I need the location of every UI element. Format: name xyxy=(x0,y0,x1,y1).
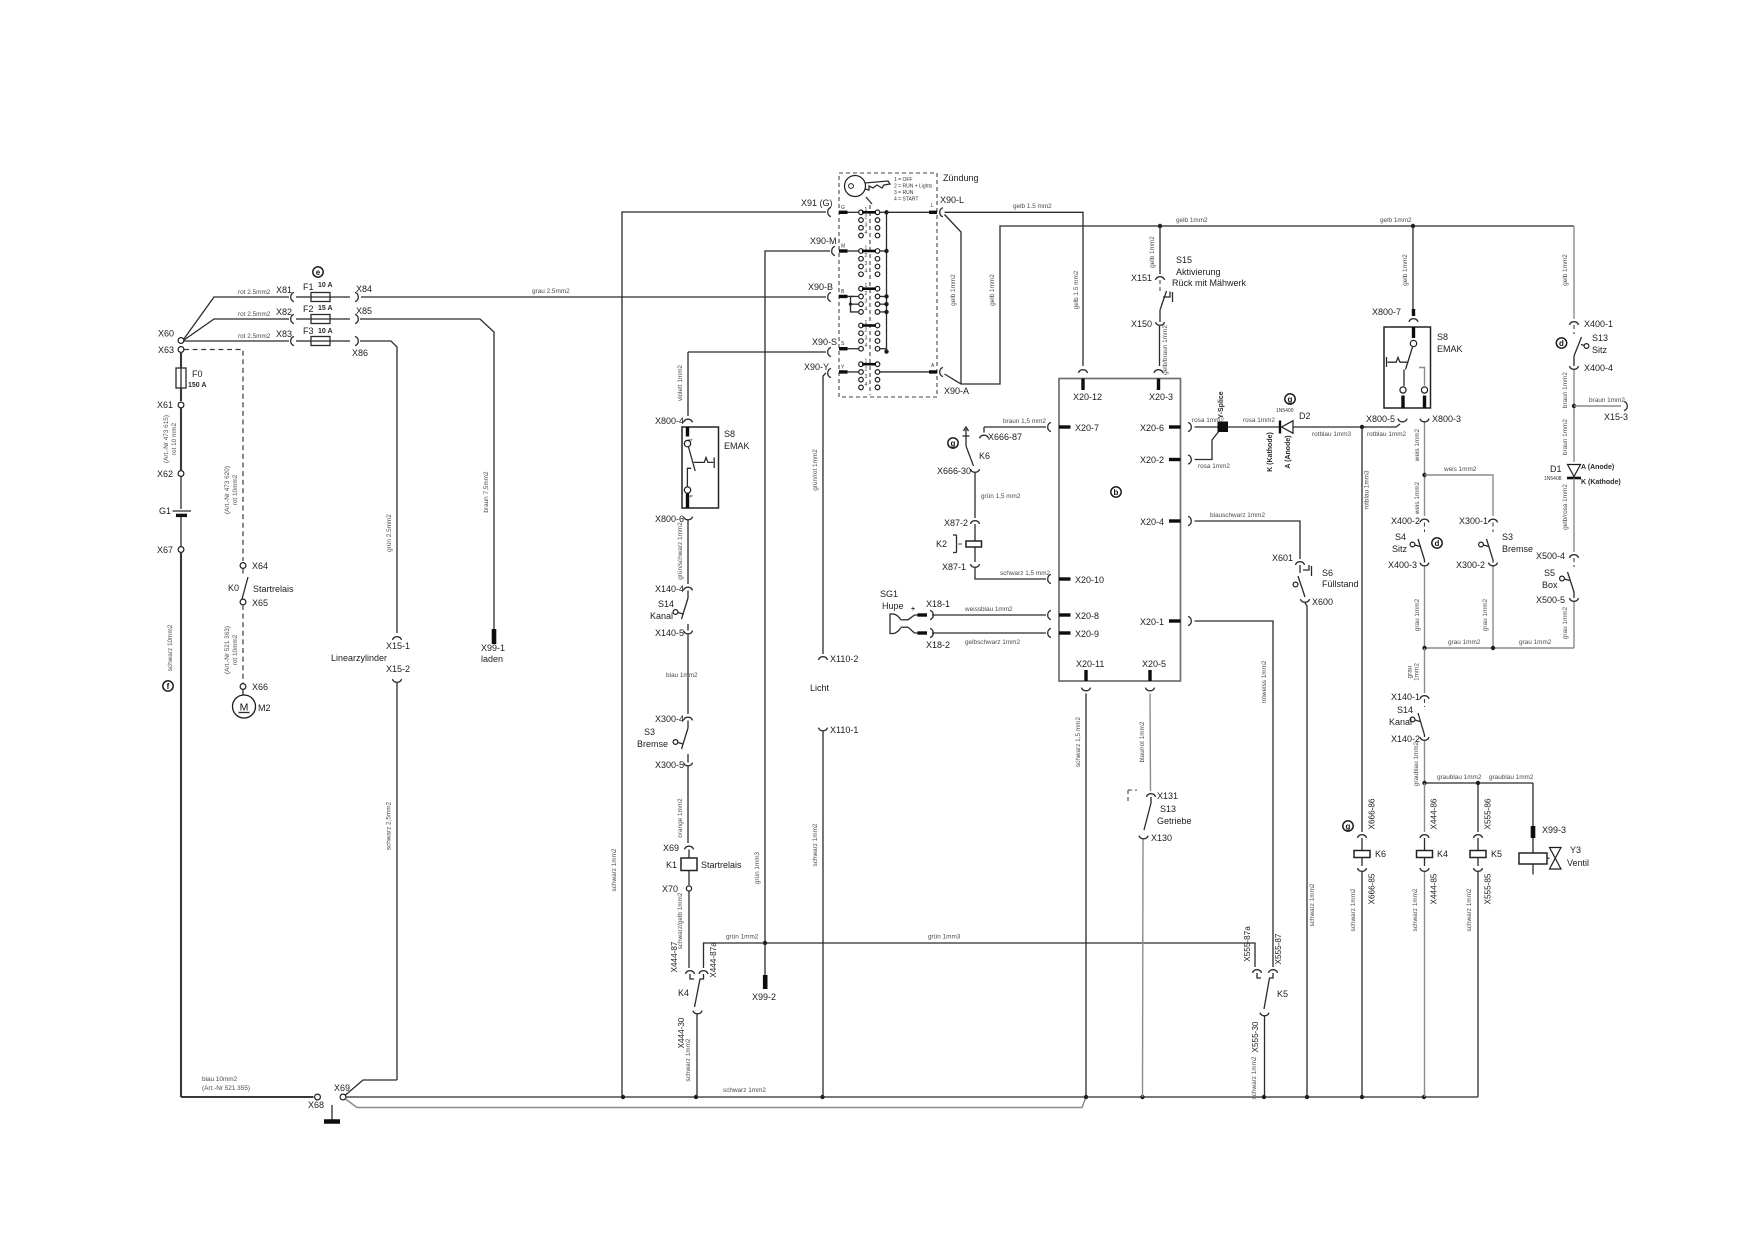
connector X90-Y xyxy=(828,368,831,377)
ignition terminal M xyxy=(839,249,848,252)
svg-text:X800-7: X800-7 xyxy=(1372,307,1401,317)
svg-text:schwarz 1,5 mm2: schwarz 1,5 mm2 xyxy=(1075,717,1082,768)
node X65 xyxy=(240,599,246,605)
wire X800-3 down, weis 1mm2 xyxy=(1424,423,1426,517)
svg-text:4: 4 xyxy=(865,230,868,236)
svg-text:X20-6: X20-6 xyxy=(1140,423,1164,433)
svg-text:F3: F3 xyxy=(303,326,314,336)
connector X444-30 xyxy=(693,1011,702,1014)
svg-text:X444-86: X444-86 xyxy=(1430,798,1439,829)
svg-text:rosa 1mm2: rosa 1mm2 xyxy=(1243,417,1275,424)
circled letter g (K6 coil) xyxy=(1343,821,1353,831)
splice Y-Splice xyxy=(1218,422,1229,433)
svg-text:X90-Y: X90-Y xyxy=(804,362,829,372)
svg-text:X555-86: X555-86 xyxy=(1484,798,1493,829)
relay coil K5 xyxy=(1477,838,1479,851)
svg-text:grau 2.5mm2: grau 2.5mm2 xyxy=(532,288,570,295)
terminal X99-3 xyxy=(1531,826,1536,838)
svg-text:rot 10mm2: rot 10mm2 xyxy=(232,474,239,505)
pin X20-4 xyxy=(1188,516,1191,525)
svg-text:X85: X85 xyxy=(356,306,372,316)
svg-text:schwarz 1mm2: schwarz 1mm2 xyxy=(1309,883,1316,926)
svg-text:X67: X67 xyxy=(157,545,173,555)
svg-text:X555-85: X555-85 xyxy=(1484,873,1493,904)
connector X666-30 xyxy=(970,469,979,472)
svg-text:EMAK: EMAK xyxy=(724,441,750,451)
svg-text:150 A: 150 A xyxy=(188,382,206,389)
svg-text:X20-9: X20-9 xyxy=(1075,629,1099,639)
svg-text:gelb 1.5 mm2: gelb 1.5 mm2 xyxy=(1013,203,1052,210)
svg-text:violett 1mm2: violett 1mm2 xyxy=(677,364,684,401)
pin X20-7 xyxy=(1048,422,1051,431)
fuse F1 10A xyxy=(296,296,311,298)
svg-text:1 = OFF: 1 = OFF xyxy=(894,177,912,183)
svg-text:X140-4: X140-4 xyxy=(655,584,684,594)
svg-text:gelb 1mm2: gelb 1mm2 xyxy=(989,274,996,306)
svg-text:grau 1mm2: grau 1mm2 xyxy=(1482,598,1489,631)
svg-text:X83: X83 xyxy=(276,329,292,339)
connector X300-1 xyxy=(1488,519,1497,522)
connector X90-B xyxy=(828,292,831,301)
svg-text:gelb 1.5 mm2: gelb 1.5 mm2 xyxy=(1073,270,1080,309)
circled letter b xyxy=(1111,487,1121,497)
svg-text:A (Anode): A (Anode) xyxy=(1581,464,1614,471)
connector X800-3 xyxy=(1420,419,1429,422)
node X66 xyxy=(240,684,246,690)
connector X18-1 xyxy=(930,610,933,619)
svg-text:X86: X86 xyxy=(352,348,368,358)
svg-text:+: + xyxy=(911,606,915,613)
connector X444-87 xyxy=(685,971,694,974)
valve coil Y3 Ventil xyxy=(1532,838,1534,853)
switch S8 EMAK (left) xyxy=(682,427,719,508)
wire X90-L rail gelb 1.5mm2 xyxy=(945,212,1084,366)
svg-text:3: 3 xyxy=(865,261,868,267)
svg-text:1N5400: 1N5400 xyxy=(1276,408,1294,414)
svg-text:gelb 1mm2: gelb 1mm2 xyxy=(1402,254,1409,286)
wire battery minus rail to X68 xyxy=(181,1096,314,1098)
connector X84 xyxy=(355,292,358,301)
svg-text:X110-1: X110-1 xyxy=(830,725,858,735)
svg-text:gelb/rosa 1mm2: gelb/rosa 1mm2 xyxy=(1562,484,1569,530)
wire SG1 to X18-2 xyxy=(908,627,915,633)
svg-text:X20-4: X20-4 xyxy=(1140,517,1164,527)
circled letter d (S4) xyxy=(1432,538,1442,548)
svg-text:X300-4: X300-4 xyxy=(655,714,684,724)
connector X800-4 xyxy=(683,419,692,422)
wire D2 junction down to K6 coil, rotblau 1mm2 xyxy=(1361,427,1363,832)
node X61 xyxy=(178,402,184,408)
control unit box b xyxy=(1059,379,1181,682)
svg-text:X666-30: X666-30 xyxy=(937,466,971,476)
svg-text:X90-L: X90-L xyxy=(940,195,964,205)
node X64 xyxy=(240,563,246,569)
svg-text:schwarz 10mm2: schwarz 10mm2 xyxy=(167,624,174,671)
svg-text:grau 1mm2: grau 1mm2 xyxy=(1519,639,1552,646)
wire branch to X15-3, braun 1mm2 xyxy=(1574,405,1621,407)
wire X600 to ground rail, schwarz 1mm2 xyxy=(1305,603,1307,1097)
ignition terminal G xyxy=(839,211,848,214)
svg-text:X555-30: X555-30 xyxy=(1251,1021,1260,1052)
wire X18-1 to X20-8, weissblau 1mm2 xyxy=(932,614,1046,616)
svg-text:graublau 1mm2: graublau 1mm2 xyxy=(1437,774,1482,781)
svg-text:gelb 1mm2: gelb 1mm2 xyxy=(1149,236,1156,268)
svg-text:S13: S13 xyxy=(1592,333,1608,343)
svg-text:X300-1: X300-1 xyxy=(1459,516,1488,526)
circled letter e xyxy=(313,267,323,277)
wire X15-2 down to X69, schwarz 2.5mm2 xyxy=(396,683,398,1080)
svg-text:X61: X61 xyxy=(157,400,173,410)
svg-text:X500-5: X500-5 xyxy=(1536,595,1565,605)
wire X20-1 to X555-87, rotweiss 1mm2 xyxy=(1195,621,1274,967)
svg-text:X600: X600 xyxy=(1312,597,1333,607)
connector X90-A xyxy=(940,367,943,376)
relay coil K2 xyxy=(974,524,976,541)
svg-text:K1: K1 xyxy=(666,860,677,870)
svg-text:K2: K2 xyxy=(936,539,947,549)
svg-text:4: 4 xyxy=(689,438,695,441)
svg-text:Y-Splice: Y-Splice xyxy=(1218,391,1225,418)
svg-text:Füllstand: Füllstand xyxy=(1322,579,1359,589)
wire X61 to X62, rot 10mm2 xyxy=(180,408,182,470)
ignition contact group Y xyxy=(859,362,864,367)
svg-text:rot 2.5mm2: rot 2.5mm2 xyxy=(238,333,271,340)
svg-text:Linearzylinder: Linearzylinder xyxy=(331,653,387,663)
svg-text:Sitz: Sitz xyxy=(1592,345,1608,355)
connector X90-S xyxy=(828,347,831,356)
svg-text:X15-2: X15-2 xyxy=(386,664,410,674)
relay coil K6 xyxy=(1361,838,1363,851)
switch S13 Sitz xyxy=(1573,325,1575,334)
svg-text:X63: X63 xyxy=(158,345,174,355)
svg-text:K6: K6 xyxy=(979,451,990,461)
connector X90-M xyxy=(832,246,835,255)
wire X20-5 to X131, blau/rot 1mm2 xyxy=(1149,694,1152,792)
svg-text:blau 10mm2: blau 10mm2 xyxy=(202,1076,238,1083)
svg-text:X150: X150 xyxy=(1131,319,1152,329)
wire X70 to X444-87, schwarz/gelb 1mm2 xyxy=(688,891,690,968)
svg-text:rotblau 1mm2: rotblau 1mm2 xyxy=(1367,431,1407,438)
node X68 xyxy=(315,1094,321,1100)
svg-text:X81: X81 xyxy=(276,285,292,295)
circled letter d (S13) xyxy=(1556,338,1566,348)
svg-text:F1: F1 xyxy=(303,282,314,292)
node X63 xyxy=(178,347,184,353)
wire X130 to ground rail xyxy=(1142,840,1145,1098)
svg-text:X15-1: X15-1 xyxy=(386,641,410,651)
pin X20-5 xyxy=(1145,688,1154,691)
wire to X140-1, grau 1mm2 xyxy=(1424,648,1426,693)
wire X110-1 to ground rail, schwarz 1mm2 xyxy=(822,732,824,1098)
connector X555-85 xyxy=(1473,868,1482,871)
svg-text:SG1: SG1 xyxy=(880,589,898,599)
svg-text:X84: X84 xyxy=(356,284,372,294)
wire rail corner down to X400-1, gelb 1mm2 xyxy=(1573,226,1575,319)
wire X400-3 down, grau 1mm2 xyxy=(1424,567,1426,649)
svg-text:Zündung: Zündung xyxy=(943,173,979,183)
svg-text:X69: X69 xyxy=(334,1083,350,1093)
ignition terminal A xyxy=(880,371,929,373)
svg-text:Y3: Y3 xyxy=(1570,845,1581,855)
terminal X99-1 laden xyxy=(492,629,497,644)
svg-text:X20-8: X20-8 xyxy=(1075,611,1099,621)
svg-text:D1: D1 xyxy=(1550,464,1562,474)
svg-text:1N5408: 1N5408 xyxy=(1544,476,1562,482)
svg-text:Bremse: Bremse xyxy=(637,739,668,749)
svg-text:g: g xyxy=(1346,822,1351,831)
svg-text:X131: X131 xyxy=(1157,791,1178,801)
svg-text:6: 6 xyxy=(689,494,695,497)
ignition contact group M xyxy=(859,249,864,254)
svg-text:2: 2 xyxy=(865,291,868,297)
svg-text:weis 1mm2: weis 1mm2 xyxy=(1414,481,1421,515)
wire X20-6 to Y-splice, rosa 1mm2 xyxy=(1195,426,1219,428)
svg-text:F0: F0 xyxy=(192,369,203,379)
connector X300-4 xyxy=(683,717,692,720)
connector X110-1 xyxy=(818,728,827,731)
wire X90-S to violett column x688 xyxy=(688,351,826,353)
motor M2 xyxy=(242,690,244,696)
svg-text:grau: grau xyxy=(1407,665,1414,678)
svg-text:Startrelais: Startrelais xyxy=(701,860,742,870)
svg-text:X110-2: X110-2 xyxy=(830,654,858,664)
svg-text:rot 2.5mm2: rot 2.5mm2 xyxy=(238,289,271,296)
relay coil K1 Startrelais xyxy=(688,850,690,859)
ignition terminal B xyxy=(839,295,848,298)
svg-text:blau/rot 1mm2: blau/rot 1mm2 xyxy=(1139,721,1146,762)
svg-text:X99-1: X99-1 xyxy=(481,643,505,653)
svg-text:X666-87: X666-87 xyxy=(988,432,1022,442)
svg-text:Sitz: Sitz xyxy=(1392,544,1408,554)
svg-text:X140-1: X140-1 xyxy=(1391,692,1420,702)
switch S3 Bremse xyxy=(1492,523,1494,533)
connector X666-87 xyxy=(979,435,988,438)
svg-text:K (Kathode): K (Kathode) xyxy=(1581,479,1621,486)
switch S8 EMAK (right) xyxy=(1384,327,1431,408)
svg-text:S15: S15 xyxy=(1176,255,1192,265)
svg-text:X300-2: X300-2 xyxy=(1456,560,1485,570)
svg-text:S13: S13 xyxy=(1160,804,1176,814)
svg-text:X18-1: X18-1 xyxy=(926,599,950,609)
svg-text:d: d xyxy=(1435,539,1440,548)
connector X400-2 xyxy=(1420,519,1429,522)
svg-text:X400-4: X400-4 xyxy=(1584,363,1613,373)
svg-text:X99-2: X99-2 xyxy=(752,992,776,1002)
svg-text:grau 1mm2: grau 1mm2 xyxy=(1448,639,1481,646)
svg-text:S6: S6 xyxy=(1322,568,1333,578)
svg-text:S3: S3 xyxy=(644,727,655,737)
svg-text:g: g xyxy=(1288,395,1293,404)
wire X500-5 to grau rail, grau 1mm2 xyxy=(1573,602,1575,648)
svg-text:rosa 1mm2: rosa 1mm2 xyxy=(1198,463,1230,470)
svg-text:2: 2 xyxy=(865,253,868,259)
svg-text:2: 2 xyxy=(865,215,868,221)
svg-text:Getriebe: Getriebe xyxy=(1157,816,1192,826)
wire X90-Y to Licht column x823 xyxy=(823,373,826,654)
svg-text:L: L xyxy=(931,203,934,209)
pin X20-10 xyxy=(1048,574,1051,583)
svg-text:EMAK: EMAK xyxy=(1437,344,1463,354)
svg-text:K5: K5 xyxy=(1277,989,1288,999)
wire graublau corner to X99-3 xyxy=(1532,783,1534,826)
svg-text:schwarz 1mm2: schwarz 1mm2 xyxy=(611,848,618,891)
svg-text:S3: S3 xyxy=(1502,532,1513,542)
connector X15-3 xyxy=(1624,401,1627,410)
svg-text:weissblau 1mm2: weissblau 1mm2 xyxy=(964,606,1013,613)
svg-text:3: 3 xyxy=(865,299,868,305)
svg-text:Box: Box xyxy=(1542,580,1558,590)
svg-text:X87-1: X87-1 xyxy=(942,562,966,572)
svg-text:Kanal: Kanal xyxy=(1389,717,1412,727)
wire X666-30 to X87-2, gruen 1.5mm2 xyxy=(974,473,976,518)
connector X131 xyxy=(1146,794,1155,797)
wire graublau junction down to K5 coil xyxy=(1477,783,1479,832)
svg-text:braun 1,5 mm2: braun 1,5 mm2 xyxy=(1003,418,1046,425)
connector X140-2 xyxy=(1420,737,1429,740)
svg-text:schwarz 1,5 mm2: schwarz 1,5 mm2 xyxy=(1000,570,1051,577)
svg-text:X20-12: X20-12 xyxy=(1073,392,1102,402)
wire graublau rail y=783 xyxy=(1425,782,1534,784)
ground symbol xyxy=(331,1105,333,1120)
svg-text:3: 3 xyxy=(865,222,868,228)
svg-text:X400-2: X400-2 xyxy=(1391,516,1420,526)
svg-text:4 = START: 4 = START xyxy=(894,197,918,203)
connector X81 xyxy=(291,292,294,301)
svg-text:blauschwarz 1mm2: blauschwarz 1mm2 xyxy=(1210,512,1265,519)
wire X300-5 to X69, orange 1mm2 xyxy=(687,767,689,844)
wire X63 dashed to X64 xyxy=(184,350,243,562)
svg-text:X90-S: X90-S xyxy=(812,337,837,347)
svg-text:X20-5: X20-5 xyxy=(1142,659,1166,669)
svg-text:2: 2 xyxy=(865,328,868,334)
svg-text:schwarz 2,5mm2: schwarz 2,5mm2 xyxy=(386,801,393,850)
svg-text:rotweiss 1mm2: rotweiss 1mm2 xyxy=(1261,660,1268,703)
wire branch to X300-1, weis 1mm2 xyxy=(1425,475,1494,516)
svg-text:schwarz 1mm2: schwarz 1mm2 xyxy=(723,1087,766,1094)
ignition contact group S xyxy=(859,323,864,328)
connector X86 xyxy=(355,336,358,345)
svg-text:(Art.-Nr 473 620): (Art.-Nr 473 620) xyxy=(224,466,231,514)
switch S4 Sitz xyxy=(1424,523,1426,533)
svg-text:rotblau 1mm3: rotblau 1mm3 xyxy=(1312,431,1352,438)
svg-text:X65: X65 xyxy=(252,598,268,608)
svg-text:rot 2.5mm2: rot 2.5mm2 xyxy=(238,311,271,318)
wire X60 to X81 xyxy=(184,297,289,339)
svg-text:1mm2: 1mm2 xyxy=(1414,663,1421,681)
svg-text:S4: S4 xyxy=(1395,532,1406,542)
svg-text:(Art.-Nr 521 355): (Art.-Nr 521 355) xyxy=(202,1085,250,1092)
svg-text:K5: K5 xyxy=(1491,849,1502,859)
svg-text:X151: X151 xyxy=(1131,273,1152,283)
svg-text:grau 1mm2: grau 1mm2 xyxy=(1562,606,1569,639)
wire X90-L branch down to X90-A joint xyxy=(945,215,962,385)
wire X666-87 to X20-7, braun 1.5mm2 xyxy=(984,426,1046,428)
wire grau rail y=648 xyxy=(1425,647,1575,649)
wire X555-30 to ground rail, schwarz 1mm2 xyxy=(1264,1017,1266,1098)
svg-text:laden: laden xyxy=(481,654,503,664)
svg-text:X60: X60 xyxy=(158,329,174,339)
svg-text:K0: K0 xyxy=(228,583,239,593)
svg-text:S8: S8 xyxy=(724,429,735,439)
svg-text:schwarz 1mm2: schwarz 1mm2 xyxy=(685,1038,692,1081)
connector X140-4 xyxy=(683,587,692,590)
svg-text:X82: X82 xyxy=(276,307,292,317)
svg-text:Kanal: Kanal xyxy=(650,611,673,621)
svg-text:S14: S14 xyxy=(1397,705,1413,715)
pin X20-1 xyxy=(1188,616,1191,625)
wire X60 to X83 xyxy=(184,340,289,342)
svg-text:4: 4 xyxy=(865,306,868,312)
svg-text:e: e xyxy=(316,268,321,277)
fuse F2 15A xyxy=(296,318,311,320)
ignition switch S dashed box xyxy=(839,173,937,397)
svg-text:blau 1mm2: blau 1mm2 xyxy=(666,672,698,679)
svg-text:schwarz 1mm2: schwarz 1mm2 xyxy=(812,823,819,866)
svg-text:X300-5: X300-5 xyxy=(655,760,684,770)
ignition terminal L xyxy=(887,211,930,213)
wire D2 to X800-5, rotblau xyxy=(1293,424,1400,427)
ignition contact group B xyxy=(859,286,864,291)
svg-text:graublau 1mm2: graublau 1mm2 xyxy=(1413,741,1420,786)
wire D1 to X500-4, gelb/rosa 1mm2 xyxy=(1573,478,1575,552)
svg-text:rot 10 mm2: rot 10 mm2 xyxy=(171,422,178,455)
connector X800-5 xyxy=(1398,419,1407,422)
wire ground bus schwarz 1mm2 (bottom rail) xyxy=(346,1096,1478,1098)
svg-text:gelb 1mm2: gelb 1mm2 xyxy=(1176,217,1208,224)
svg-text:Hupe: Hupe xyxy=(882,601,904,611)
wire X85 to X99-1, braun 7.5mm2 xyxy=(360,319,494,629)
circled letter g (D2) xyxy=(1285,394,1295,404)
svg-text:X18-2: X18-2 xyxy=(926,640,950,650)
ignition contact group G xyxy=(859,210,864,215)
pin X20-11 xyxy=(1081,688,1090,691)
connector X666-86 xyxy=(1357,835,1366,838)
wire X87-1 to X20-10, schwarz 1.5mm2 xyxy=(975,568,1046,579)
svg-text:rotblau 1mm3: rotblau 1mm3 xyxy=(1364,470,1371,510)
svg-text:2 = RUN + Lights: 2 = RUN + Lights xyxy=(894,184,933,190)
svg-text:X69: X69 xyxy=(663,843,679,853)
svg-text:gelb 1mm2: gelb 1mm2 xyxy=(950,274,957,306)
ignition group B left bracket xyxy=(851,296,859,311)
svg-text:grün 2.5mm2: grün 2.5mm2 xyxy=(386,514,393,552)
connector X140-1 xyxy=(1420,696,1429,699)
wire X90-M to gruen column x765 xyxy=(765,251,830,943)
connector X666-85 xyxy=(1357,868,1366,871)
connector X130 xyxy=(1139,836,1148,839)
svg-text:X444-87: X444-87 xyxy=(670,941,679,972)
svg-text:A (Anode): A (Anode) xyxy=(1285,435,1292,468)
svg-text:M2: M2 xyxy=(258,703,271,713)
relay coil K4 xyxy=(1424,838,1426,851)
svg-text:X64: X64 xyxy=(252,561,268,571)
svg-text:grün/rot 1mm2: grün/rot 1mm2 xyxy=(812,449,819,491)
wire rail to X800-7, gelb 1mm2 xyxy=(1412,226,1414,316)
svg-text:grün 1mm2: grün 1mm2 xyxy=(726,934,759,941)
wire X20-4 to X601, blauschwarz 1mm2 xyxy=(1195,521,1301,559)
svg-text:X90-B: X90-B xyxy=(808,282,833,292)
svg-text:X15-3: X15-3 xyxy=(1604,412,1628,422)
pin X20-2 xyxy=(1188,455,1191,464)
node X70 xyxy=(686,886,691,891)
terminal X99-2 xyxy=(764,943,766,975)
connector X444-85 xyxy=(1420,868,1429,871)
wire X444-85 to ground rail, schwarz 1mm2 xyxy=(1424,872,1426,1097)
svg-text:3: 3 xyxy=(865,374,868,380)
svg-text:gelbschwarz 1mm2: gelbschwarz 1mm2 xyxy=(965,639,1020,646)
connector X18-2 xyxy=(930,628,933,637)
svg-text:Bremse: Bremse xyxy=(1502,544,1533,554)
svg-text:braun 7,5mm2: braun 7,5mm2 xyxy=(483,471,490,513)
